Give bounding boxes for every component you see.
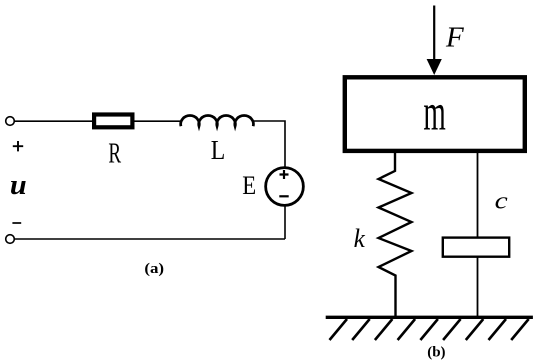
wire inductor to corner and down to source (253, 121, 286, 168)
svg-text:E: E (242, 171, 256, 200)
plus sign inside source (280, 170, 289, 179)
svg-text:R: R (108, 138, 121, 170)
terminal bottom-left (6, 235, 15, 244)
svg-text:(b): (b) (427, 345, 445, 361)
minus symbol at input (12, 222, 21, 224)
svg-text:c: c (495, 187, 508, 214)
svg-text:L: L (211, 134, 226, 165)
svg-text:(a): (a) (144, 261, 164, 277)
svg-text:m: m (423, 85, 446, 142)
damper rod upper (477, 151, 479, 237)
svg-text:F: F (445, 22, 464, 54)
wire top from terminal to resistor (14, 120, 94, 122)
ground line (326, 316, 533, 319)
ground hatch 4 (398, 319, 416, 340)
ground hatch 5 (420, 319, 438, 340)
voltage source E circle (266, 168, 304, 206)
ground hatch 6 (443, 319, 461, 340)
wire source down to bottom (284, 205, 286, 239)
terminal top-left (6, 117, 15, 126)
svg-text:u: u (10, 170, 27, 201)
ground hatch 8 (489, 319, 507, 340)
minus sign inside source (279, 195, 288, 197)
ground hatch 7 (466, 319, 484, 340)
resistor R (94, 115, 132, 128)
mass m block (345, 77, 525, 151)
ground hatch 9 (511, 319, 529, 340)
spring k (379, 151, 412, 317)
damper body c (443, 238, 509, 257)
force arrow line (433, 6, 435, 63)
damper rod lower (477, 257, 479, 317)
wire resistor to inductor (135, 120, 183, 122)
ground hatch 1 (330, 319, 348, 340)
ground hatch 3 (375, 319, 393, 340)
inductor L (181, 116, 254, 127)
bottom wire (14, 238, 285, 240)
ground hatch 2 (352, 319, 370, 340)
plus symbol at input (13, 141, 23, 151)
svg-text:k: k (354, 224, 366, 254)
force arrowhead (427, 59, 442, 75)
